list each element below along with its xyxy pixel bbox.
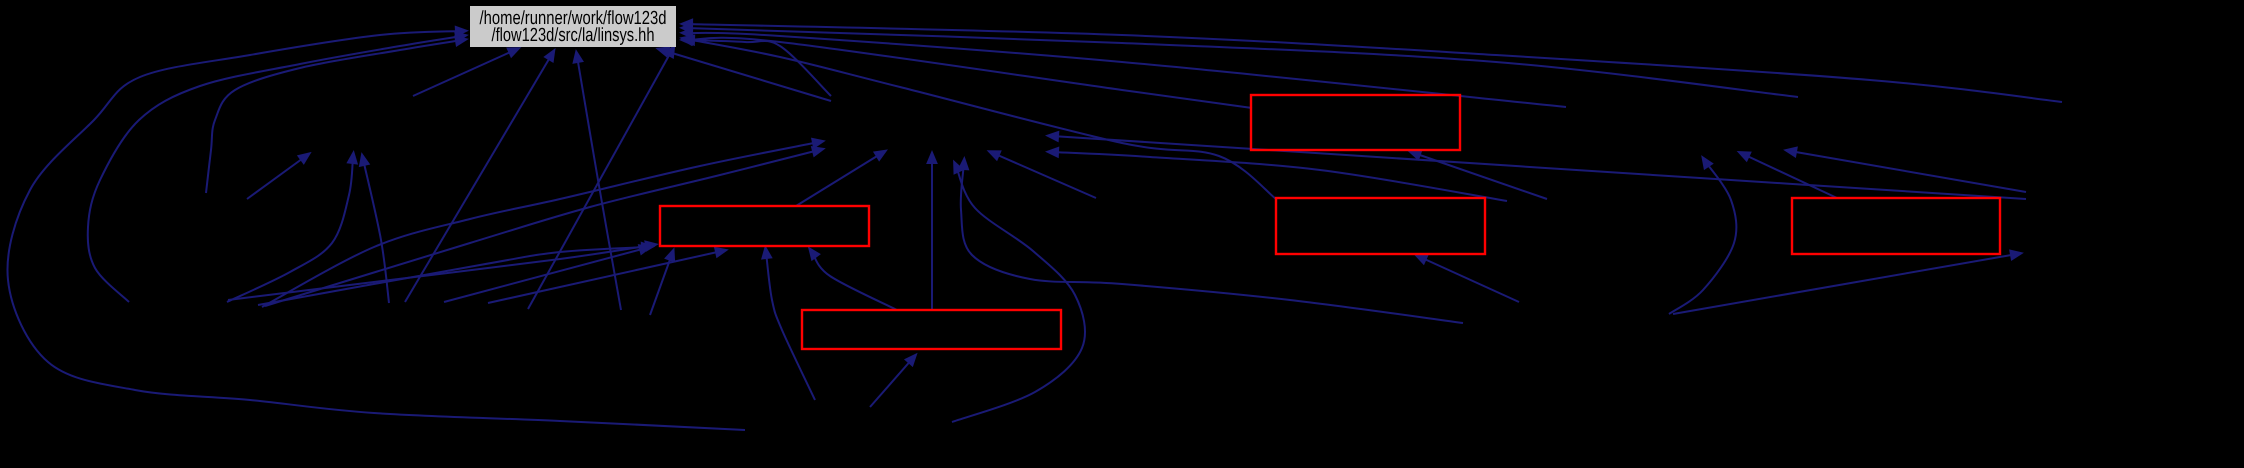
- wire E18 to N1 left: [262, 142, 819, 307]
- wire E21 to box2 bottom: [488, 251, 722, 303]
- wire E23 box5 to box2: [812, 252, 897, 310]
- wire E37 R2X to R1Y: [1790, 151, 2026, 192]
- wire E33 to box3 bottom: [1420, 257, 1519, 302]
- wire E27 bulge curve to N1: [952, 166, 1085, 422]
- wire E3 left curve 3: [206, 40, 462, 193]
- wire E12 to G right: [686, 24, 2062, 102]
- wire E19 to box2 bottom: [444, 248, 646, 302]
- wire E15 to N2: [363, 159, 389, 303]
- node red box3: [1276, 198, 1485, 254]
- wire E22 curve to box2 bottom: [766, 252, 815, 400]
- wire E30 to N1 right: [1052, 152, 1507, 201]
- wire E14 curve to N2: [227, 157, 353, 302]
- wire E6 long to G bottom: [577, 56, 621, 310]
- svg-text:/flow123d/src/la/linsys.hh: /flow123d/src/la/linsys.hh: [492, 25, 655, 46]
- wire E31 long to N1 right: [1052, 136, 2026, 199]
- node red box4: [1792, 198, 2000, 254]
- wire E13 to N2: [247, 156, 306, 199]
- wire E1 huge left sweep: [7, 31, 745, 430]
- wire E16 to box2 left: [228, 245, 652, 300]
- wire E26 box2 to N1: [796, 153, 882, 206]
- node red box1: [1251, 95, 1460, 150]
- wire E10 to G right: [686, 33, 1566, 107]
- wire E11 to G right: [686, 28, 1798, 97]
- wire E9 box3 to G: [686, 39, 1276, 199]
- wire E25 to box5: [870, 358, 913, 407]
- wire E36 box4 to R1Y: [1743, 154, 1837, 198]
- node linsys.hh main gray box: [470, 6, 676, 47]
- wire E5 long to G bottom: [405, 54, 552, 302]
- wire E38 N1 steep to G right: [688, 40, 831, 96]
- wire E24 box5 to N1: [931, 157, 933, 310]
- wire E29 to N1 bottom: [993, 153, 1096, 198]
- wire E28 wavy to N1: [961, 163, 1463, 323]
- wire E20 to box2 corner: [258, 247, 648, 305]
- node red box5: [802, 310, 1061, 349]
- wire E2 left curve 2: [88, 36, 462, 302]
- wire E35 R3Y to R2X: [1673, 254, 2017, 314]
- wire E17 long shallow to N1 left: [265, 150, 819, 306]
- wire E34 curve to R1Y: [1669, 161, 1736, 314]
- wire E32 to box1 bottom: [1414, 153, 1547, 199]
- wire E7 N1 to G: [662, 50, 831, 101]
- wire E40 steep to box2 corner: [650, 254, 672, 315]
- wire E8 box1 to G: [686, 38, 1252, 108]
- wire E4 to G bottom: [413, 50, 515, 96]
- wire E39 steep to G bottom corner: [528, 50, 672, 309]
- node red box2: [660, 206, 869, 246]
